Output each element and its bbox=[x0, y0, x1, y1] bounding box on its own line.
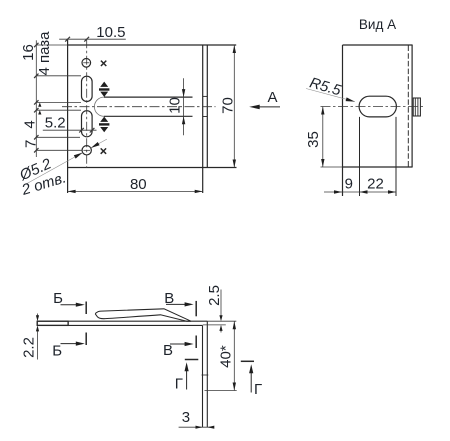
leader R5.5 bbox=[306, 89, 355, 102]
viewA tab bbox=[413, 98, 420, 116]
lower hole bbox=[82, 146, 91, 155]
horizontal slot top edge bbox=[104, 96, 193, 98]
dim 35 bbox=[322, 107, 324, 168]
viewA slot left vertical bbox=[359, 117, 361, 196]
svg-text:Г: Г bbox=[175, 376, 183, 393]
svg-text:40*: 40* bbox=[217, 345, 234, 368]
view arrow A bbox=[254, 106, 280, 108]
upper slot 1 bbox=[82, 76, 93, 101]
svg-text:2.5: 2.5 bbox=[206, 285, 223, 306]
upper hole bbox=[82, 59, 91, 68]
press mark upper bbox=[100, 82, 108, 87]
plate bottom edge bbox=[68, 167, 237, 169]
plate top edge bbox=[68, 44, 237, 46]
strip box emphasis bbox=[37, 321, 68, 325]
plate bend line bbox=[202, 45, 204, 193]
vertical strip right line bbox=[206, 321, 208, 427]
viewA bottom edge bbox=[343, 166, 413, 168]
x mark upper bbox=[101, 61, 106, 66]
vertical center line bbox=[86, 39, 88, 168]
chain extension slot1 top bbox=[36, 75, 81, 77]
svg-text:70: 70 bbox=[220, 97, 237, 114]
chain extension 16 top bbox=[36, 44, 67, 46]
press mark lower bbox=[100, 117, 108, 122]
svg-text:R5.5: R5.5 bbox=[308, 74, 344, 99]
chain extension slot2 bottom bbox=[36, 136, 80, 138]
lip tick lower bbox=[203, 116, 208, 118]
horizontal slot bottom edge bbox=[104, 115, 193, 117]
svg-text:Г: Г bbox=[254, 381, 262, 398]
strip left end bbox=[36, 321, 38, 325]
lip tick upper bbox=[203, 95, 208, 97]
svg-text:10.5: 10.5 bbox=[96, 24, 125, 41]
chain oblique ticks bbox=[34, 43, 38, 153]
svg-text:5.2: 5.2 bbox=[45, 115, 66, 132]
dim 9 and 22 bbox=[324, 191, 396, 193]
x mark lower bbox=[101, 148, 106, 153]
viewA bend dashed line bbox=[407, 46, 409, 167]
viewA top edge bbox=[343, 44, 413, 46]
dim 10 bbox=[183, 78, 185, 135]
dim 70 bbox=[233, 45, 235, 168]
strip top line bbox=[37, 320, 207, 322]
dim 80 bbox=[68, 190, 203, 192]
vertical strip tick bbox=[202, 374, 209, 376]
strip box divider bbox=[67, 321, 69, 325]
dim 2.2 bbox=[37, 328, 39, 360]
svg-text:7: 7 bbox=[23, 140, 40, 148]
svg-text:Вид А: Вид А bbox=[359, 17, 396, 32]
viewA center line bbox=[321, 106, 425, 108]
chain extension slot2 top bbox=[36, 109, 81, 111]
dim 3 bbox=[179, 426, 213, 428]
svg-text:22: 22 bbox=[367, 175, 384, 192]
plate left edge bbox=[67, 39, 69, 193]
svg-text:А: А bbox=[267, 89, 277, 106]
vertical strip left line bbox=[202, 325, 204, 427]
svg-text:2.2: 2.2 bbox=[21, 337, 38, 358]
svg-text:9: 9 bbox=[345, 175, 353, 192]
svg-text:16: 16 bbox=[20, 44, 37, 61]
horizontal slot left arc bbox=[94, 97, 104, 116]
left chain dim line bbox=[34, 40, 82, 157]
slot horizontal center line bbox=[62, 106, 216, 108]
svg-text:В: В bbox=[163, 342, 173, 359]
lower slot 2 bbox=[82, 111, 93, 137]
svg-text:35: 35 bbox=[305, 131, 322, 148]
chain extension slot1 bottom bbox=[36, 101, 81, 103]
svg-text:80: 80 bbox=[130, 176, 147, 193]
strip bottom line bbox=[37, 324, 202, 326]
dim 2.5 bbox=[220, 290, 222, 320]
viewA left edge bbox=[342, 45, 344, 196]
viewA right edge bbox=[411, 45, 413, 167]
leader O5.2 bbox=[27, 139, 107, 183]
dim 40* bbox=[233, 321, 235, 390]
svg-text:4: 4 bbox=[21, 120, 38, 128]
chain extension hole center bbox=[36, 149, 82, 151]
plate right outer edge bbox=[206, 45, 208, 168]
svg-text:3: 3 bbox=[182, 409, 190, 426]
dim 10.5 bbox=[59, 37, 126, 42]
viewA slot stadium bbox=[359, 96, 396, 117]
svg-text:4 паза: 4 паза bbox=[36, 31, 53, 76]
spring contact outline bbox=[95, 309, 191, 321]
svg-text:10: 10 bbox=[167, 97, 184, 114]
small arrows for dim 4 bbox=[38, 103, 41, 115]
svg-text:Б: Б bbox=[52, 343, 62, 360]
viewA slot right vertical bbox=[395, 117, 397, 196]
